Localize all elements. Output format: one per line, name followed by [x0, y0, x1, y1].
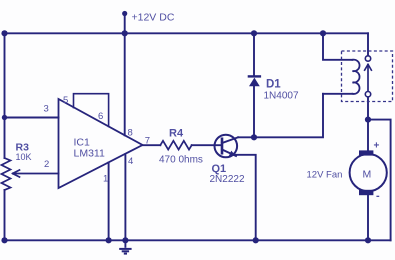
op-amp U1 LM311 triangle: [59, 99, 143, 188]
relay contact arrowhead: [365, 64, 372, 70]
svg-text:R4: R4: [169, 127, 184, 139]
inductor relay coil loops: [353, 60, 360, 94]
node coil feed: [320, 30, 326, 36]
diode D1 cathode bar: [249, 75, 260, 77]
node bottom-left corner: [1, 237, 7, 243]
wire emitter to ground: [236, 155, 256, 241]
svg-text:6: 6: [98, 111, 103, 122]
node pot top junction: [2, 115, 7, 120]
transistor Q1 collector lead: [222, 137, 238, 143]
motor M circle (12V fan): [350, 154, 387, 191]
svg-text:8: 8: [128, 127, 133, 138]
node pin4 ground: [122, 237, 128, 243]
wire to right return branch: [368, 120, 391, 241]
svg-text:M: M: [363, 169, 372, 181]
node emitter ground: [253, 237, 259, 243]
fan terminal bottom: [359, 190, 373, 195]
wire pin 1 to ground: [108, 162, 110, 240]
wire R4 to Q1 base: [192, 144, 222, 146]
svg-text:4: 4: [128, 156, 133, 167]
relay dashed enclosure box: [342, 51, 393, 102]
node +12V rail / supply stub: [122, 30, 128, 36]
wire D1 branch upper: [253, 33, 255, 76]
resistor R4 zigzag: [160, 141, 191, 150]
wire left vertical rail lower: [4, 190, 6, 240]
wire relay coil feed from +12V: [323, 33, 353, 60]
relay contact top terminal: [365, 56, 370, 61]
svg-text:-: -: [376, 190, 380, 202]
fan terminal top: [359, 150, 373, 155]
ground symbol: [119, 240, 131, 253]
relay contact terminal circles: [365, 56, 370, 97]
wire op-amp output pin 7: [143, 144, 161, 146]
wire left vertical rail upper: [4, 33, 6, 158]
wire D1 branch lower: [253, 86, 255, 137]
transistor Q1 circle: [215, 135, 238, 158]
wire relay contact output: [367, 97, 369, 151]
wire relay contact from +12V rail: [367, 33, 369, 56]
node D1 top: [251, 30, 257, 36]
svg-text:2N2222: 2N2222: [210, 174, 245, 185]
wire +12V supply stub to pin 8: [124, 14, 126, 136]
diode D1 triangle: [249, 78, 260, 87]
transistor Q1 base bar: [221, 139, 224, 153]
wire collector to relay coil: [238, 94, 323, 138]
svg-text:7: 7: [145, 135, 150, 146]
wire ground bottom rail: [5, 239, 391, 241]
svg-text:LM311: LM311: [74, 148, 105, 160]
svg-text:1N4007: 1N4007: [264, 91, 299, 102]
wire +12V top rail: [5, 32, 369, 34]
wire relay coil bottom to collector line: [323, 93, 353, 95]
potentiometer wiper arrow to pin 2: [13, 170, 59, 177]
transistor Q1 emitter lead: [222, 150, 236, 157]
relay contact bottom terminal: [365, 92, 370, 97]
node relay output / fan: [365, 117, 371, 123]
svg-text:2: 2: [44, 159, 49, 170]
resistor R3 (potentiometer zigzag): [2, 158, 11, 190]
node pin1 ground: [106, 237, 112, 243]
svg-text:10K: 10K: [16, 152, 32, 162]
relay contact movable arm wire: [367, 67, 369, 92]
node +12V terminal: [122, 11, 127, 16]
wire pin 4 to ground: [124, 154, 126, 240]
svg-text:D1: D1: [266, 79, 281, 91]
svg-text:5: 5: [63, 95, 68, 106]
svg-text:3: 3: [44, 104, 49, 115]
wire fan negative to ground rail: [367, 195, 369, 240]
node collector / D1 anode: [251, 134, 257, 140]
node fan negative ground: [365, 237, 371, 243]
wire pin3 to pot: [5, 117, 59, 119]
transistor Q1 emitter arrowhead: [229, 151, 236, 156]
svg-text:470 0hms: 470 0hms: [159, 154, 203, 165]
svg-text:1: 1: [103, 174, 108, 185]
svg-text:+: +: [374, 141, 380, 152]
wire pins 5-6 strobe loop: [74, 94, 109, 127]
svg-text:+12V DC: +12V DC: [132, 11, 175, 23]
svg-text:12V Fan: 12V Fan: [307, 169, 343, 180]
node top-left corner: [1, 30, 7, 36]
